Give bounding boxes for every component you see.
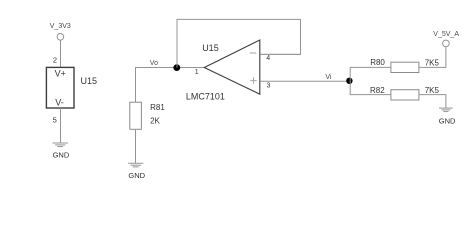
svg-text:V+: V+ [55, 68, 66, 78]
svg-text:GND: GND [128, 171, 145, 180]
ground symbol right [439, 108, 453, 112]
svg-text:R80: R80 [370, 58, 385, 67]
resistor R80 [391, 62, 419, 72]
svg-text:V_5V_A: V_5V_A [433, 31, 459, 38]
wire op-amp pin 3 to node Vi [260, 80, 349, 82]
wire Vo corner to op-amp input [136, 68, 205, 103]
svg-text:5: 5 [53, 115, 57, 124]
power symbol V_3V3 [57, 34, 64, 41]
svg-text:4: 4 [266, 55, 270, 62]
svg-text:R82: R82 [370, 86, 385, 95]
svg-text:GND: GND [53, 151, 70, 160]
wire U15 pin 5 to ground [60, 108, 62, 143]
junction node at Vo [173, 64, 180, 71]
svg-text:V_3V3: V_3V3 [50, 23, 71, 30]
svg-text:LMC7101: LMC7101 [186, 92, 225, 102]
non-inverting input plus mark [250, 77, 256, 83]
svg-text:Vo: Vo [150, 60, 158, 67]
inverting input minus mark [250, 52, 256, 54]
resistor R81 [130, 102, 142, 129]
svg-text:3: 3 [267, 83, 271, 90]
svg-text:U15: U15 [81, 76, 98, 86]
wire R80 to V_5V_A [419, 47, 446, 68]
op-amp U15 triangle [204, 40, 259, 94]
svg-text:7K5: 7K5 [425, 58, 440, 67]
svg-text:1: 1 [195, 69, 199, 76]
svg-text:Vi: Vi [325, 74, 332, 81]
resistor R82 [391, 90, 419, 100]
wire R82 to ground [419, 95, 446, 109]
wire V_3V3 to U15 pin 2 [60, 40, 62, 67]
wire op-amp pin 4 [260, 53, 301, 55]
svg-text:2: 2 [53, 55, 57, 64]
wire feedback loop [177, 19, 301, 67]
svg-text:R81: R81 [150, 103, 165, 112]
op-amp power box U15 [46, 67, 74, 108]
ground symbol middle [128, 163, 143, 167]
svg-text:7K5: 7K5 [425, 86, 440, 95]
svg-text:GND: GND [439, 117, 456, 126]
junction node at Vi [346, 78, 352, 84]
svg-text:V-: V- [55, 98, 64, 108]
svg-text:U15: U15 [202, 43, 219, 53]
wire R81 to ground [135, 129, 137, 163]
svg-text:2K: 2K [150, 117, 160, 126]
power symbol V_5V_A [443, 40, 450, 47]
wire Vi node to R82 [350, 81, 391, 95]
wire Vi node to R80 [350, 67, 391, 80]
ground symbol left [53, 143, 68, 147]
